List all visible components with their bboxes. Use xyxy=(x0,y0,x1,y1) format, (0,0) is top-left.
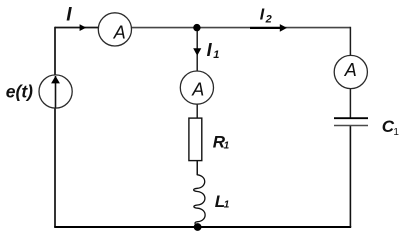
svg-text:e(t): e(t) xyxy=(6,82,33,102)
wire left vertical xyxy=(54,27,56,227)
svg-text:1: 1 xyxy=(213,49,219,61)
current arrow I2 xyxy=(250,24,287,32)
current arrow I xyxy=(80,24,87,31)
svg-text:1: 1 xyxy=(393,127,399,138)
wire middle branch vertical xyxy=(196,28,198,175)
wire top horizontal xyxy=(55,27,350,29)
svg-text:A: A xyxy=(113,23,126,43)
svg-text:2: 2 xyxy=(265,14,272,26)
capacitor C1 plates xyxy=(334,118,368,125)
svg-text:A: A xyxy=(191,80,204,100)
node junction top xyxy=(193,24,200,31)
wire right vertical upper xyxy=(349,27,351,118)
ammeter A2 xyxy=(180,71,213,104)
svg-text:A: A xyxy=(344,60,357,80)
svg-text:1: 1 xyxy=(224,140,230,151)
inductor L1 xyxy=(194,175,205,226)
node junction bottom xyxy=(194,223,202,231)
wire right vertical lower xyxy=(349,126,351,228)
wire bottom horizontal xyxy=(54,226,351,228)
wire top-left segment xyxy=(55,27,99,29)
wire resistor to inductor xyxy=(196,162,198,176)
voltage source e(t) xyxy=(39,75,72,108)
svg-text:1: 1 xyxy=(224,200,230,211)
resistor R1 xyxy=(189,118,202,161)
ammeter A3 xyxy=(334,55,367,88)
svg-text:I: I xyxy=(66,4,72,25)
ammeter A1 xyxy=(98,13,131,46)
current arrow I1 xyxy=(193,48,201,56)
svg-text:I: I xyxy=(260,7,265,24)
